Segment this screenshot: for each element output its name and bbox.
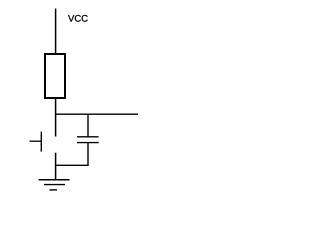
transistor Q1 drain (55, 114, 57, 136)
transistor Q1 gate lead (30, 140, 42, 142)
wire output node to right edge (55, 113, 138, 115)
capacitor C1 bottom plate (77, 142, 99, 144)
wire resistor bottom to drain node (55, 98, 57, 114)
ground (39, 180, 70, 190)
node VCC label (68, 15, 88, 22)
capacitor C1 bottom lead (87, 143, 89, 166)
wire source node to capacitor bottom (55, 164, 89, 166)
wire VCC supply to resistor top (55, 9, 57, 55)
transistor Q1 source (55, 153, 57, 180)
capacitor C1 top plate (77, 136, 99, 138)
capacitor C1 top lead (87, 114, 89, 137)
transistor Q1 gate (40, 132, 42, 152)
resistor R1 (45, 54, 65, 98)
